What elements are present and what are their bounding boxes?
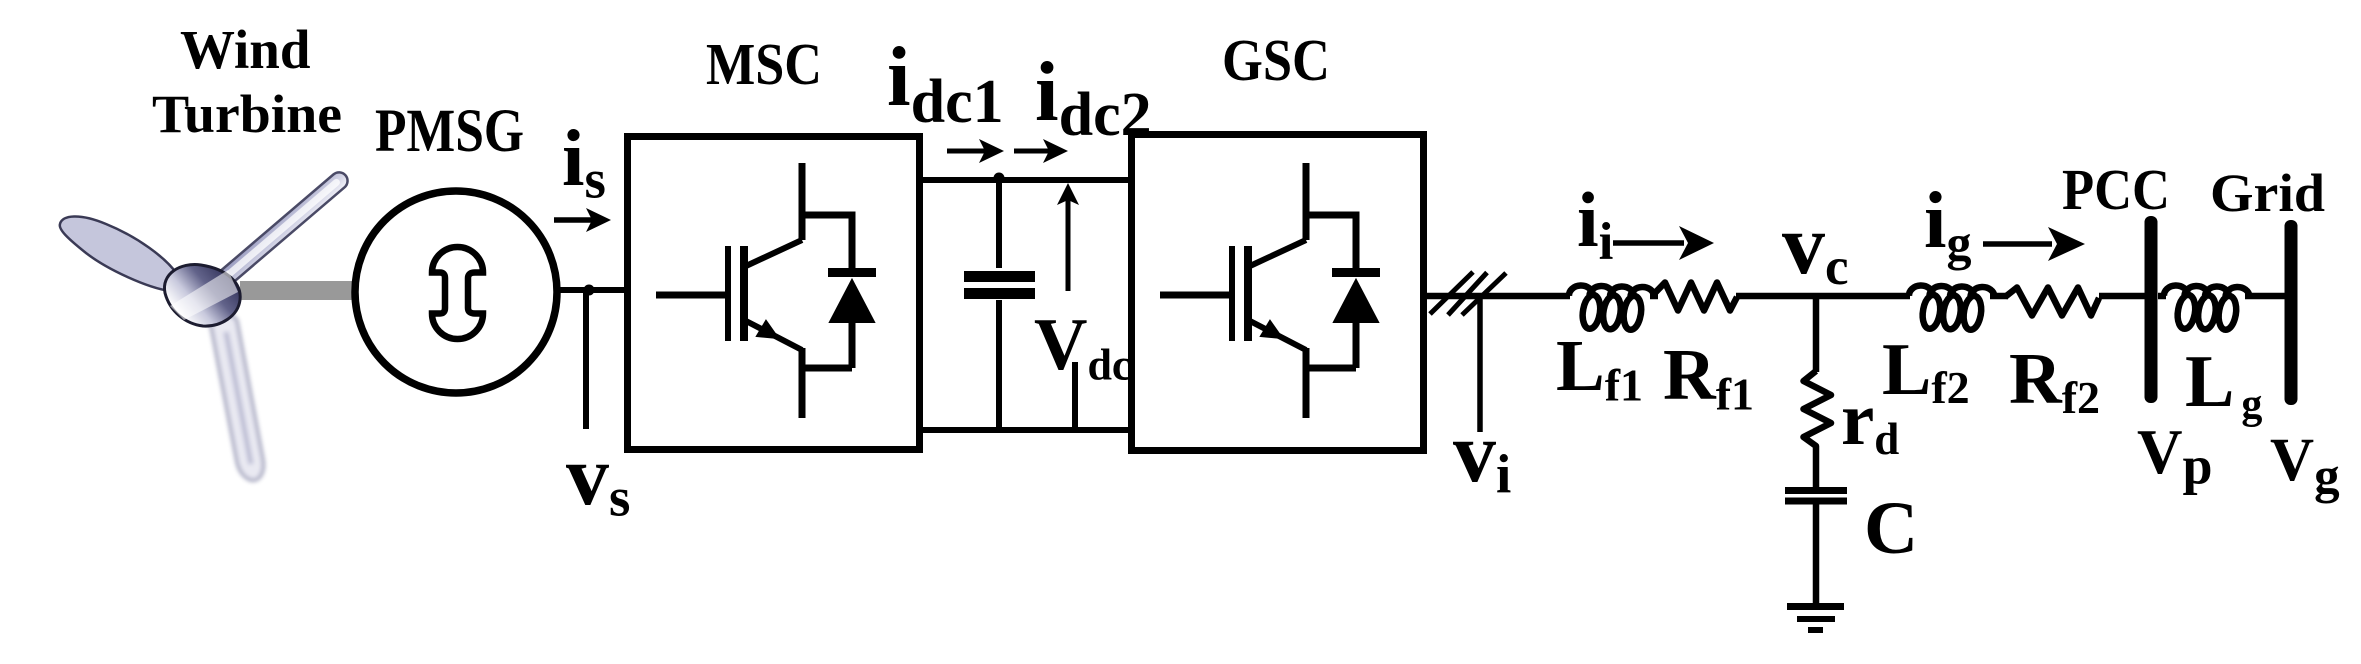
svg-text:PCC: PCC bbox=[2062, 157, 2170, 222]
svg-text:PMSG: PMSG bbox=[375, 98, 524, 165]
svg-text:GSC: GSC bbox=[1222, 27, 1330, 93]
svg-text:C: C bbox=[1864, 487, 1918, 570]
svg-text:MSC: MSC bbox=[706, 31, 822, 97]
svg-text:Wind: Wind bbox=[180, 19, 310, 80]
svg-text:Grid: Grid bbox=[2210, 163, 2325, 223]
svg-text:Turbine: Turbine bbox=[152, 84, 342, 144]
